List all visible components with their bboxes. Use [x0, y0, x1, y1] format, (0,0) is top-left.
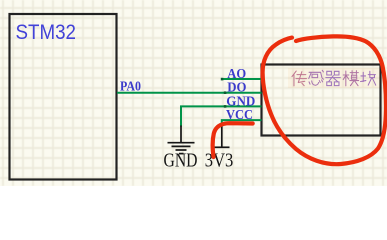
char 感 — [309, 70, 324, 85]
svg-text:3V3: 3V3 — [205, 149, 234, 171]
power symbol 3V3 bar — [215, 124, 230, 147]
svg-text:PA0: PA0 — [120, 79, 141, 94]
wire pin GND to ground — [181, 106, 262, 126]
wire pin VCC to 3V3 — [222, 120, 262, 125]
component U2 sensor module box — [262, 65, 381, 136]
char 传 — [292, 71, 307, 86]
wire pin AO — [222, 78, 262, 80]
label 传感器模块 (hand drawn strokes) — [292, 70, 376, 86]
component U1 STM32 box — [10, 14, 117, 180]
wire PA0 to DO (net) — [117, 92, 262, 94]
svg-text:VCC: VCC — [226, 108, 253, 123]
annotation red curl at 3V3 — [213, 123, 253, 157]
ground symbol — [168, 126, 195, 154]
svg-text:GND: GND — [164, 149, 198, 171]
pin hotspot dot DO — [224, 91, 227, 94]
svg-text:STM32: STM32 — [16, 20, 77, 44]
annotation red ellipse around sensor module — [263, 36, 386, 164]
char 块 — [361, 71, 376, 85]
char 模 — [343, 71, 359, 86]
char 器 — [326, 71, 341, 85]
pin hotspot dot AO — [221, 78, 224, 81]
pin hotspot dot GND — [224, 105, 227, 108]
